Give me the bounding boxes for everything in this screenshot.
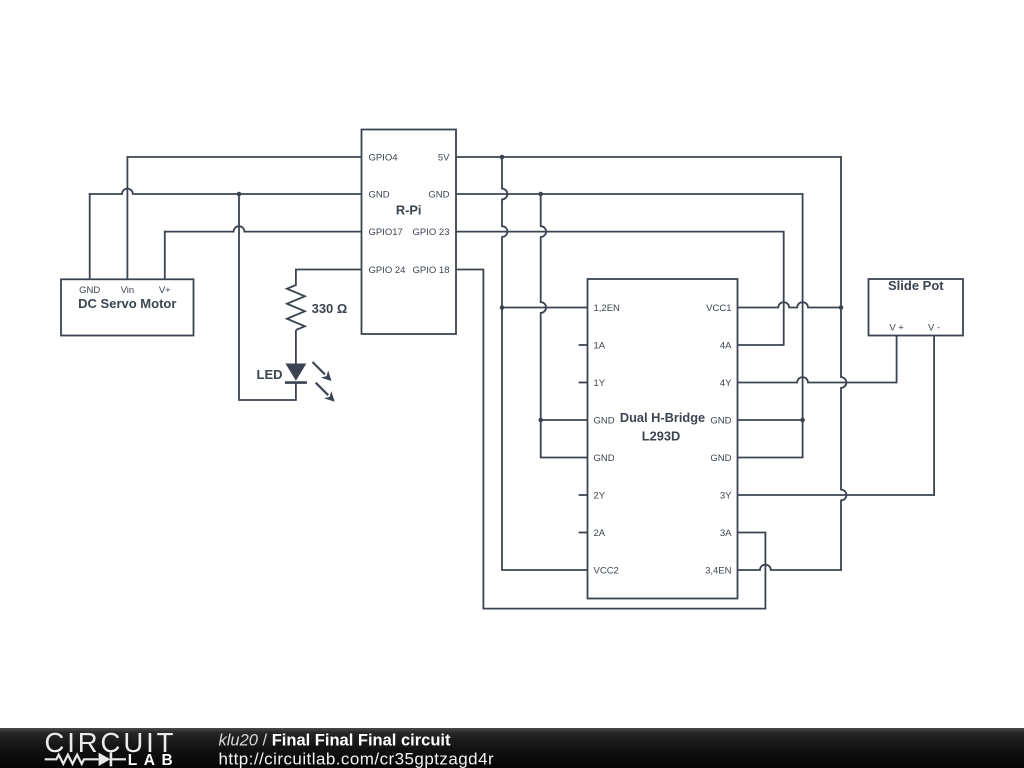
node GND junction: [538, 192, 543, 197]
wire GPIO17 row (hop over LED-loop vertical): [165, 226, 362, 231]
wire GPIO 23 to 4A: [456, 232, 784, 345]
svg-text:GND: GND: [710, 415, 731, 426]
svg-text:GPIO 24: GPIO 24: [369, 265, 406, 276]
junction dots: [237, 155, 844, 423]
wire servo V+ vertical: [164, 232, 166, 280]
wire L293D left GND pin row: [541, 419, 588, 421]
svg-text:330 Ω: 330 Ω: [312, 301, 348, 316]
stub pin 1A: [580, 344, 588, 346]
svg-text:1Y: 1Y: [594, 378, 606, 389]
svg-text:LED: LED: [257, 367, 283, 382]
node 1,2EN/5V junction: [500, 305, 505, 310]
svg-text:GPIO17: GPIO17: [369, 227, 403, 238]
wire 4Y to Slide Pot V+ (hop over GND vertical): [738, 336, 897, 383]
logo resistor symbol: [45, 755, 99, 764]
svg-text:GPIO 23: GPIO 23: [413, 227, 450, 238]
svg-text:1A: 1A: [594, 340, 606, 351]
svg-text:3A: 3A: [720, 528, 732, 539]
node VCC1/5V junction: [839, 305, 844, 310]
svg-text:3Y: 3Y: [720, 490, 732, 501]
svg-text:GND: GND: [428, 189, 449, 200]
wire GPIO 18 to 3A: [456, 270, 765, 609]
stub pin 2A: [580, 532, 588, 534]
svg-text:V -: V -: [928, 322, 940, 333]
Slide Pot box: [869, 278, 964, 335]
svg-text:VCC2: VCC2: [594, 565, 619, 576]
svg-text:http://circuitlab.com/cr35gptz: http://circuitlab.com/cr35gptzagd4r: [219, 749, 495, 768]
svg-text:VCC1: VCC1: [706, 303, 731, 314]
wire LED loop (GND junction down and right to LED cathode): [239, 194, 296, 400]
DC Servo Motor box: [61, 279, 194, 335]
svg-text:V +: V +: [889, 322, 904, 333]
logo diode symbol: [99, 753, 111, 766]
stub pin 1Y: [580, 382, 588, 384]
wire GPIO 24 to resistor top: [296, 270, 362, 286]
node 5V junction: [500, 155, 505, 160]
wire VCC1 row (hops over two verticals): [738, 302, 842, 307]
wire 5V row: [456, 156, 841, 158]
wire 3Y to Slide Pot V-: [738, 336, 935, 496]
stub pin 2Y: [580, 494, 588, 496]
svg-text:GPIO4: GPIO4: [369, 152, 398, 163]
svg-text:1,2EN: 1,2EN: [594, 303, 621, 314]
node GND/LED junction: [237, 192, 242, 197]
svg-text:DC Servo Motor: DC Servo Motor: [78, 296, 176, 311]
svg-text:GND: GND: [594, 415, 615, 426]
wire 5V vertical x=502 to VCC2 (hops over GND and GPIO23 rows): [502, 157, 588, 570]
wire GND left vertical x=540.7 with hops: [541, 194, 588, 458]
svg-text:5V: 5V: [438, 152, 450, 163]
wire servo GND vertical: [89, 194, 91, 279]
wire Vin vertical: [126, 157, 128, 279]
wire GND right vertical to L293D right GND pins: [738, 194, 803, 458]
svg-text:GPIO 18: GPIO 18: [413, 265, 450, 276]
svg-text:klu20 / Final Final Final circ: klu20 / Final Final Final circuit: [219, 732, 452, 750]
svg-text:GND: GND: [710, 453, 731, 464]
svg-text:4Y: 4Y: [720, 378, 732, 389]
resistor R1 330 ohm: [287, 285, 305, 364]
svg-text:GND: GND: [369, 189, 390, 200]
svg-text:4A: 4A: [720, 340, 732, 351]
svg-text:GND: GND: [594, 453, 615, 464]
wire 5V vertical x=841 to 3,4EN (hops over 4Y and 3Y rows): [841, 157, 846, 570]
wire 3,4EN row (hop over 3A vertical): [738, 565, 842, 570]
svg-text:GND: GND: [79, 285, 100, 296]
svg-text:L293D: L293D: [642, 429, 680, 444]
wire 1,2EN row: [502, 307, 588, 309]
svg-text:3,4EN: 3,4EN: [705, 565, 732, 576]
LED D1: [285, 362, 335, 402]
wire GPIO4 row (R-Pi GPIO4 to Servo Vin horizontal): [127, 156, 361, 158]
svg-text:Dual H-Bridge: Dual H-Bridge: [620, 410, 705, 425]
wire GND row horizontal (hop over Vin vertical): [90, 189, 803, 194]
wire L293D right GND pin row: [738, 419, 803, 421]
svg-text:Vin: Vin: [121, 285, 135, 296]
svg-text:V+: V+: [159, 285, 171, 296]
svg-text:Slide Pot: Slide Pot: [888, 278, 944, 293]
R-Pi box: [362, 130, 457, 335]
svg-text:2Y: 2Y: [594, 490, 606, 501]
node right GND junction: [800, 418, 805, 423]
svg-text:R-Pi: R-Pi: [396, 203, 422, 218]
node left GND junction: [538, 418, 543, 423]
svg-text:LAB: LAB: [128, 752, 179, 768]
svg-text:2A: 2A: [594, 528, 606, 539]
L293D Dual H-Bridge box: [588, 279, 738, 599]
